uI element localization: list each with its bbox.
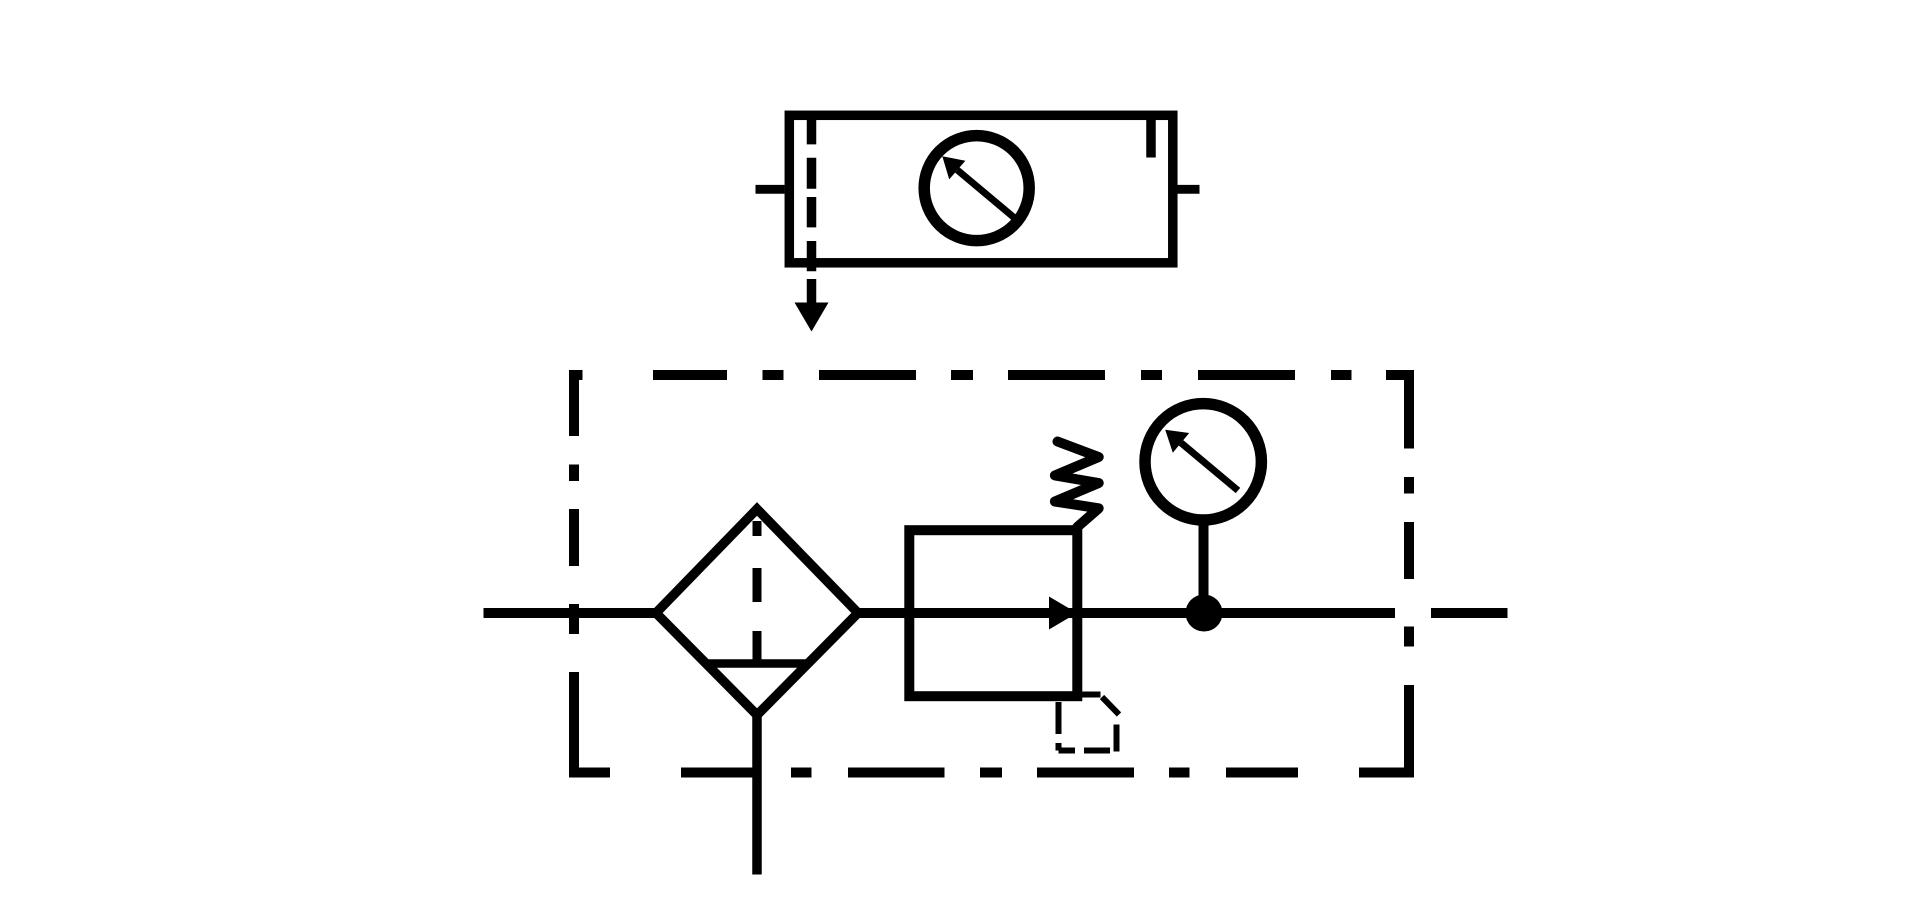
filter F1 drain line: [752, 714, 762, 875]
filter F1 diamond body: [656, 509, 858, 715]
regulator R1 body box: [909, 530, 1077, 696]
regulator R1 relief vent (dashed): [1059, 695, 1120, 752]
filter F1 separator chord: [706, 659, 808, 668]
simplified service-unit box U1: [789, 115, 1173, 262]
drain arrow dash below U1: [807, 279, 817, 303]
gauge G1 needle shaft: [957, 170, 1014, 218]
enclosure border right (dash-dot): [1404, 371, 1414, 778]
left port stub of U1: [756, 185, 785, 194]
flow line inlet segment: [484, 608, 657, 618]
internal dashed separator line in U1: [807, 119, 817, 271]
inner tab line at top right of U1: [1146, 119, 1156, 158]
enclosure border bottom (dash-dot): [569, 768, 1414, 778]
pressure gauge G2 circle: [1145, 404, 1261, 520]
flow line outlet segment: [1431, 608, 1508, 618]
pressure gauge G1 circle: [924, 136, 1029, 241]
junction node dot: [1186, 595, 1223, 632]
right port stub of U1: [1178, 185, 1200, 194]
enclosure border top (dash-dot): [569, 370, 1414, 380]
filter F1 internal dashed line: [753, 521, 762, 663]
flow line middle segment: [858, 608, 1395, 618]
regulator R1 flow arrowhead: [1049, 597, 1077, 630]
gauge G1 needle arrowhead: [942, 156, 965, 179]
gauge G2 needle arrowhead: [1165, 430, 1189, 453]
gauge G2 needle shaft: [1181, 443, 1238, 491]
drain arrowhead below U1: [795, 303, 829, 332]
gauge G2 connector line: [1199, 520, 1209, 613]
enclosure border left (dash-dot): [569, 371, 579, 778]
regulator R1 adjustment spring: [1055, 442, 1099, 528]
